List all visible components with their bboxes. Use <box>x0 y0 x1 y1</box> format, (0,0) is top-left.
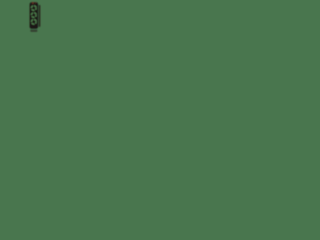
lamp ring top <box>32 6 37 11</box>
lamp ring bottom <box>32 20 37 25</box>
ground shadow <box>30 30 37 32</box>
pole <box>39 5 40 27</box>
lamp ring middle <box>32 13 37 18</box>
traffic light housing <box>30 2 38 29</box>
shaded grass under housing <box>30 29 37 31</box>
grass background <box>0 0 84 84</box>
shaded grass between housing and pole <box>38 5 39 28</box>
red cap highlight <box>32 2 34 4</box>
